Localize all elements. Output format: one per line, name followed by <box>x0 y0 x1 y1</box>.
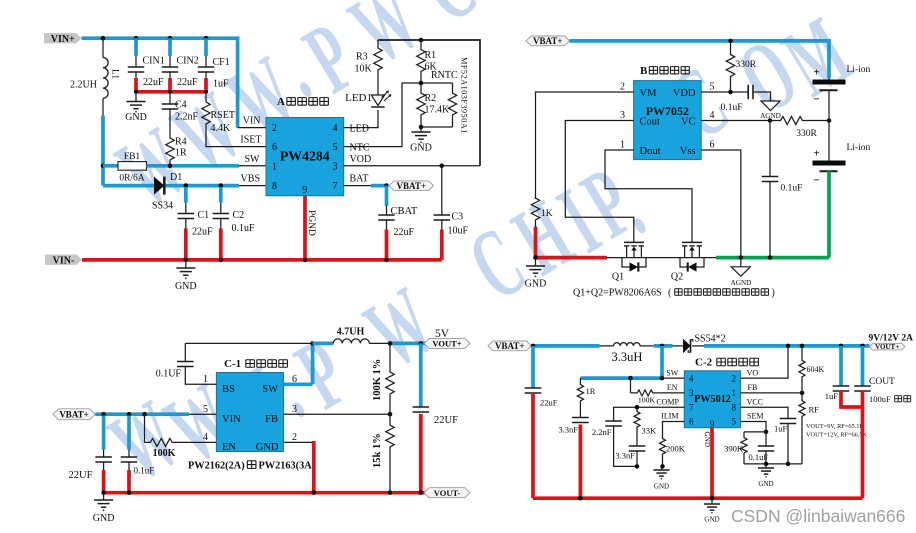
wire top rail R3-R1-VOD <box>378 40 480 166</box>
svg-text:6: 6 <box>710 140 715 151</box>
svg-text:VBAT+: VBAT+ <box>495 341 524 351</box>
node vcc gnd <box>786 462 791 467</box>
wire VDD pin <box>701 91 748 93</box>
svg-text:L1: L1 <box>111 69 121 79</box>
wire VIN+ top rail (blue) <box>82 38 238 127</box>
svg-text:4: 4 <box>689 373 694 383</box>
svg-text:C4: C4 <box>175 100 187 111</box>
svg-text:0.1uF: 0.1uF <box>721 103 743 113</box>
svg-text:VC: VC <box>681 116 696 127</box>
svg-text:GND: GND <box>93 513 115 524</box>
svg-text:GND: GND <box>704 516 719 524</box>
capacitor 3.3nF (1R) <box>579 405 581 418</box>
wire left rail (blue) to SW/VBS <box>101 116 105 186</box>
wire BS top rail <box>185 342 312 344</box>
wire FB pin <box>284 413 391 415</box>
node EN branch <box>628 376 633 381</box>
capacitor CIN2 22uF <box>162 66 179 68</box>
svg-text:VO: VO <box>747 368 759 377</box>
wire CIN2 red stub <box>168 78 172 92</box>
svg-text:0.1UF: 0.1UF <box>156 369 182 380</box>
svg-text:): ) <box>772 288 775 299</box>
svg-text:0.1uF: 0.1uF <box>134 466 155 476</box>
svg-text:2.2UH: 2.2UH <box>70 80 97 91</box>
resistor 100K (EN C1) <box>144 414 146 442</box>
node VIN+ / L1 <box>101 36 106 41</box>
svg-text:VBAT+: VBAT+ <box>59 409 88 419</box>
net tag VOUT+ (C1) <box>424 338 470 348</box>
node rail/PGND <box>303 258 308 263</box>
node rail/CBAT <box>384 258 389 263</box>
wire CIN2 stub <box>168 38 172 56</box>
net tag VIN+ <box>44 33 82 43</box>
ground GND under R2 <box>420 127 422 132</box>
wire GND pin 9 (red) <box>710 428 714 499</box>
wire SW pin (C2) <box>580 376 662 380</box>
svg-text:10uF: 10uF <box>448 226 469 237</box>
wire 0.1uF column (B mid) <box>769 121 771 177</box>
svg-text:1K: 1K <box>541 209 553 219</box>
svg-text:−: − <box>813 175 819 187</box>
svg-text:22UF: 22UF <box>69 470 93 481</box>
svg-text:5: 5 <box>710 82 715 93</box>
svg-text:2: 2 <box>732 373 737 383</box>
svg-text:0.1uF: 0.1uF <box>781 184 803 194</box>
net tag VOUT+ (C2) <box>869 343 905 350</box>
svg-text:PW4284: PW4284 <box>280 149 330 164</box>
wire VCC pin <box>741 407 788 418</box>
node VC/battery mid <box>827 118 832 123</box>
svg-text:FB: FB <box>748 383 758 392</box>
resistor 330R (VC) <box>780 117 805 125</box>
node 100K1% top <box>388 341 393 346</box>
resistor 1K <box>531 198 539 221</box>
wire VO pin <box>741 346 788 378</box>
capacitor COUT 100uF <box>861 346 865 386</box>
wire VOD pin <box>344 165 480 167</box>
node VBS / C2 <box>219 183 224 188</box>
svg-text:SS54*2: SS54*2 <box>695 334 726 345</box>
node SEM <box>764 430 769 435</box>
wire ISET <box>206 126 266 147</box>
svg-text:4.4K: 4.4K <box>211 123 232 134</box>
svg-text:17.4K: 17.4K <box>425 105 451 116</box>
ground GND (comp) <box>661 466 663 470</box>
chip U3 PW2162 <box>216 373 283 452</box>
capacitor 0.1uF (C1 in) <box>127 416 131 450</box>
svg-text:1uF: 1uF <box>774 424 788 434</box>
svg-text:GND: GND <box>175 281 197 292</box>
capacitor 22UF (C1 out) <box>419 343 423 406</box>
svg-text:VOUT=12V, RF=66.5K: VOUT=12V, RF=66.5K <box>806 432 867 439</box>
svg-text:GND: GND <box>256 442 279 453</box>
node sem gnd <box>764 462 769 467</box>
svg-text:1: 1 <box>203 374 208 385</box>
node VC/0.1uF <box>768 118 773 123</box>
svg-text:PW2162(2A): PW2162(2A) <box>188 461 245 472</box>
wire VOUT- bottom rail (red) <box>104 491 425 495</box>
capacitor 2.2nF <box>605 420 622 422</box>
svg-text:6: 6 <box>689 417 694 427</box>
resistor 15k 1% <box>389 414 391 424</box>
svg-text:GND: GND <box>654 483 669 491</box>
svg-text:390K: 390K <box>724 444 744 454</box>
svg-text:1uF: 1uF <box>825 391 839 401</box>
svg-text:200K: 200K <box>666 444 686 454</box>
capacitor C2 0.1uF <box>219 187 223 203</box>
node rail/C1 <box>184 258 189 263</box>
ground GND under CIN1 <box>135 92 137 102</box>
wire PGND (red) <box>303 196 307 261</box>
svg-text:RF: RF <box>809 405 820 415</box>
svg-text:100uF: 100uF <box>869 394 891 404</box>
wire VBAT+ rail (blue, C1) <box>95 412 189 416</box>
capacitor 22uF (C2 in) <box>531 346 535 388</box>
wire VBS (blue) <box>166 184 240 188</box>
ground AGND (VDD) <box>761 101 780 111</box>
node FB divider <box>388 412 393 417</box>
svg-text:B: B <box>640 65 648 77</box>
ground GND (C1) <box>103 493 105 500</box>
ground GND main (A) <box>185 260 187 268</box>
svg-text:Cout: Cout <box>640 116 661 127</box>
resistor 1R <box>579 378 581 382</box>
resistor 390K <box>743 432 745 436</box>
resistor 330R (VDD) <box>726 41 734 92</box>
svg-text:FB1: FB1 <box>124 152 141 162</box>
capacitor 22UF (C1 in) <box>102 416 106 450</box>
capacitor C1 22uF <box>184 187 188 203</box>
svg-text:R4: R4 <box>175 137 187 148</box>
svg-text:22uF: 22uF <box>394 227 415 238</box>
svg-text:4: 4 <box>203 432 208 443</box>
ground GND (B) <box>535 258 537 266</box>
svg-text:PW2163(3A): PW2163(3A) <box>259 461 316 472</box>
thermistor RNTC <box>421 82 453 84</box>
watermark WWW.PWCHIP.COM <box>93 0 868 503</box>
svg-text:LED: LED <box>350 124 369 135</box>
svg-text:VCC: VCC <box>747 398 763 407</box>
wire CF1 stub <box>204 38 208 56</box>
svg-text:C-1: C-1 <box>224 358 241 370</box>
svg-text:1R: 1R <box>586 386 596 396</box>
svg-text:2: 2 <box>272 123 277 134</box>
svg-text:VIN+: VIN+ <box>51 34 75 45</box>
svg-text:Li-ion: Li-ion <box>847 143 871 153</box>
wire BAT pin <box>344 185 371 187</box>
svg-text:4.7UH: 4.7UH <box>337 327 365 338</box>
battery Li-ion 2 <box>813 161 846 166</box>
svg-text:3: 3 <box>620 110 625 121</box>
svg-text:SW: SW <box>262 384 278 395</box>
wire NTC pin <box>344 83 421 147</box>
svg-text:ILIM: ILIM <box>661 412 678 421</box>
svg-text:3.3uH: 3.3uH <box>612 350 643 364</box>
capacitor CBAT 22uF <box>385 186 389 206</box>
svg-text:EN: EN <box>222 442 236 453</box>
svg-text:2.2nF: 2.2nF <box>175 112 199 123</box>
node rail GNDpin <box>312 490 317 495</box>
wire SW node (blue) <box>654 344 673 348</box>
wire 1K to GND (red) <box>534 227 538 258</box>
net tag VBAT+ (C1) <box>53 409 96 420</box>
svg-text:2: 2 <box>620 82 625 93</box>
wire to VOUT+ (blue) <box>390 342 425 346</box>
svg-text:9: 9 <box>710 419 715 429</box>
resistor R1 6K <box>417 40 425 83</box>
node green/Vss <box>739 255 744 260</box>
capacitor CIN1 22uF <box>128 66 145 68</box>
wire battery to pack- (green) <box>827 171 831 257</box>
svg-text:C-2: C-2 <box>695 357 713 369</box>
ground AGND (B bottom) <box>740 258 742 267</box>
node green/0.1uF <box>768 255 773 260</box>
node 604K top <box>800 344 805 349</box>
wire source line Q1-Q2 <box>607 257 716 259</box>
svg-text:1: 1 <box>732 388 737 398</box>
svg-text:22uF: 22uF <box>540 398 558 408</box>
wire Vss pin <box>701 150 741 258</box>
capacitor 0.1UF (BS) <box>185 367 216 385</box>
resistor 33K <box>636 407 638 410</box>
resistor 200K <box>660 437 666 457</box>
svg-text:BAT: BAT <box>350 174 369 185</box>
node rail 0.1uF <box>127 490 132 495</box>
wire out rail (blue, C2) <box>704 344 870 348</box>
svg-text:330R: 330R <box>736 60 757 70</box>
svg-text:SW: SW <box>666 368 678 377</box>
svg-text:10K: 10K <box>355 64 373 75</box>
svg-text:VOUT+: VOUT+ <box>432 338 461 348</box>
wire LED pin <box>344 110 378 128</box>
svg-text:7: 7 <box>333 181 338 192</box>
svg-text:3.3nF: 3.3nF <box>615 451 635 461</box>
transistor Q2 <box>682 241 702 243</box>
svg-text:VDD: VDD <box>673 88 696 99</box>
svg-text:+: + <box>813 148 819 160</box>
svg-text:EN: EN <box>667 383 678 392</box>
svg-text:604K: 604K <box>807 365 825 374</box>
svg-text:D1: D1 <box>170 172 182 183</box>
svg-text:0.1uF: 0.1uF <box>232 223 256 234</box>
svg-text:CIN2: CIN2 <box>177 56 199 67</box>
svg-text:3: 3 <box>292 404 297 415</box>
wire CF1 red stub <box>204 78 208 92</box>
node ilim gnd <box>660 464 665 469</box>
node VIN+ / CIN2 <box>168 36 173 41</box>
resistor 100K (EN C2) <box>630 378 632 393</box>
wire SEM pin <box>741 422 766 432</box>
wire Dout pin <box>605 150 692 242</box>
wire sem bottom bar <box>744 463 802 465</box>
svg-text:1R: 1R <box>175 148 187 159</box>
svg-text:22UF: 22UF <box>434 415 458 426</box>
battery Li-ion 1 <box>828 79 830 81</box>
node C1 0.1uF <box>127 412 132 417</box>
svg-text:Li-ion: Li-ion <box>847 65 871 75</box>
svg-text:FB: FB <box>265 414 278 425</box>
svg-text:330R: 330R <box>796 129 817 139</box>
svg-text:VOUT+: VOUT+ <box>875 343 899 351</box>
wire CIN1 stub <box>134 38 138 56</box>
node rail 3.3nF <box>578 496 583 501</box>
svg-text:COUT: COUT <box>869 377 895 387</box>
node VBS / C1 <box>184 183 189 188</box>
svg-text:VIN-: VIN- <box>53 255 75 266</box>
resistor RSET 4.4K <box>205 92 207 102</box>
wire red bus under input caps <box>135 90 208 94</box>
svg-text:RSET: RSET <box>211 110 235 121</box>
svg-text:VOUT-: VOUT- <box>434 488 461 498</box>
svg-text:3.3nF: 3.3nF <box>558 425 578 435</box>
capacitor 1uF (out) <box>839 346 843 386</box>
svg-text:GND: GND <box>758 480 773 488</box>
svg-text:Q1+Q2=PW8206A6S: Q1+Q2=PW8206A6S <box>573 288 662 299</box>
svg-text:C2: C2 <box>233 210 245 221</box>
svg-text:MF52A103F3950A1: MF52A103F3950A1 <box>460 57 469 134</box>
svg-text:100K: 100K <box>153 448 176 459</box>
wire CIN1 red stub <box>134 78 138 92</box>
wire SW riser (blue) <box>311 343 315 384</box>
wire red bar to Q1 <box>536 256 608 260</box>
inductor L1 2.2UH <box>102 38 104 57</box>
svg-text:GND: GND <box>525 279 547 290</box>
node SW riser <box>660 344 665 349</box>
svg-text:PGND: PGND <box>306 210 316 236</box>
svg-text:15k 1%: 15k 1% <box>372 433 383 468</box>
svg-text:7: 7 <box>689 402 694 412</box>
wire FB pin (C2) <box>741 392 802 394</box>
svg-text:NTC: NTC <box>350 143 370 154</box>
svg-text:VBAT+: VBAT+ <box>397 181 426 191</box>
svg-text:R3: R3 <box>356 52 368 63</box>
svg-text:33K: 33K <box>642 426 658 436</box>
node R1/R2 <box>419 81 424 86</box>
svg-text:5: 5 <box>203 404 208 415</box>
svg-text:C3: C3 <box>452 212 464 223</box>
svg-text:GND: GND <box>125 112 147 123</box>
svg-text:3: 3 <box>333 162 338 173</box>
resistor RF <box>801 393 803 399</box>
node VO riser <box>786 344 791 349</box>
svg-text:100K 1%: 100K 1% <box>372 359 383 401</box>
op-chip U1 PW4284 <box>266 118 344 196</box>
svg-text:LED1: LED1 <box>345 92 372 104</box>
inductor 3.3uH <box>600 345 614 347</box>
svg-text:2.2nF: 2.2nF <box>592 427 612 437</box>
led LED1 <box>377 93 379 95</box>
svg-text:R2: R2 <box>425 93 437 104</box>
svg-text:GND: GND <box>703 432 711 448</box>
svg-text:22uF: 22uF <box>143 77 164 88</box>
resistor R2 17.4K <box>417 83 425 127</box>
svg-text:RNTC: RNTC <box>431 70 458 81</box>
svg-text:5: 5 <box>333 142 338 153</box>
ground GND (pin9) <box>711 498 713 504</box>
svg-text:0R/6A: 0R/6A <box>119 174 144 184</box>
svg-text:VOUT=9V, RF=65.1K: VOUT=9V, RF=65.1K <box>806 423 864 430</box>
svg-text:R1: R1 <box>425 50 437 61</box>
resistor R3 10K <box>377 40 379 47</box>
svg-text:100K: 100K <box>638 396 656 405</box>
svg-text:CIN1: CIN1 <box>143 56 165 67</box>
svg-text:Q1: Q1 <box>612 272 624 283</box>
svg-text:9V/12V 2A: 9V/12V 2A <box>869 334 914 344</box>
node rail 22UFout <box>419 490 424 495</box>
node COMP/33K <box>635 405 640 410</box>
svg-text:VIN: VIN <box>222 414 241 425</box>
wire VBAT+ rail (blue, C2) <box>532 344 600 348</box>
svg-text:6: 6 <box>272 142 277 153</box>
inductor 4.7UH <box>313 342 334 346</box>
wire bottom rail (red, C2) <box>533 496 863 500</box>
svg-text:SW: SW <box>245 154 261 165</box>
capacitor 1uF (VCC) <box>780 418 797 420</box>
svg-text:CF1: CF1 <box>213 57 230 68</box>
svg-text:5: 5 <box>732 417 737 427</box>
svg-text:CBAT: CBAT <box>391 206 418 217</box>
capacitor CF1 1uF <box>198 66 215 68</box>
capacitor 0.1uF (VDD) <box>747 85 749 100</box>
wire VIN pin <box>238 127 266 129</box>
node C1 22UF <box>101 412 106 417</box>
net tag VBAT+ (B) <box>526 36 570 46</box>
svg-text:3: 3 <box>689 388 694 398</box>
wire GND pin riser (red) <box>284 441 314 443</box>
wire VBAT+ rail (blue, B) <box>570 41 830 79</box>
node 330R top <box>728 39 733 44</box>
svg-text:ISET: ISET <box>240 135 261 146</box>
svg-text:9: 9 <box>302 185 307 196</box>
node VIN+ / CF1 <box>204 36 209 41</box>
svg-text:SEM: SEM <box>747 412 763 421</box>
capacitor C3 10uF <box>441 166 443 215</box>
node rail 22UF <box>101 490 106 495</box>
chip U2 PW7052 <box>634 81 702 160</box>
node VIN+ / CIN1 <box>134 36 139 41</box>
svg-text:PW5012: PW5012 <box>694 394 731 405</box>
chip U4 PW5012 <box>684 371 740 428</box>
svg-text:GND: GND <box>410 143 432 154</box>
diode SS54*2 <box>683 339 691 354</box>
svg-text:Q2: Q2 <box>671 272 683 283</box>
svg-text:VM: VM <box>640 88 658 99</box>
node COUT <box>860 344 865 349</box>
node FB/RF <box>800 391 805 396</box>
node rail pin9 <box>710 496 715 501</box>
wire VIN- bottom rail (red) <box>82 258 442 262</box>
net tag VIN- <box>45 255 82 265</box>
wire VM pin <box>536 92 634 199</box>
svg-text:CSDN @linbaiwan666: CSDN @linbaiwan666 <box>731 506 905 526</box>
svg-text:8: 8 <box>272 181 277 192</box>
svg-text:1uF: 1uF <box>213 79 229 90</box>
svg-text:1: 1 <box>620 140 625 151</box>
net tag VBAT+ (C2) <box>488 341 532 351</box>
wire VC pin <box>701 120 780 122</box>
svg-text:A: A <box>277 96 285 108</box>
svg-text:Vss: Vss <box>680 146 696 157</box>
svg-text:1: 1 <box>272 162 277 173</box>
svg-text:VBS: VBS <box>241 174 260 185</box>
svg-text:COMP: COMP <box>656 398 679 407</box>
capacitor 3.3nF (33K) <box>636 430 638 446</box>
node comp gnd <box>635 464 640 469</box>
node rail/C2 <box>219 258 224 263</box>
diode D1 SS34 <box>103 184 154 188</box>
svg-text:4: 4 <box>710 110 715 121</box>
node rail 15k <box>388 490 393 495</box>
